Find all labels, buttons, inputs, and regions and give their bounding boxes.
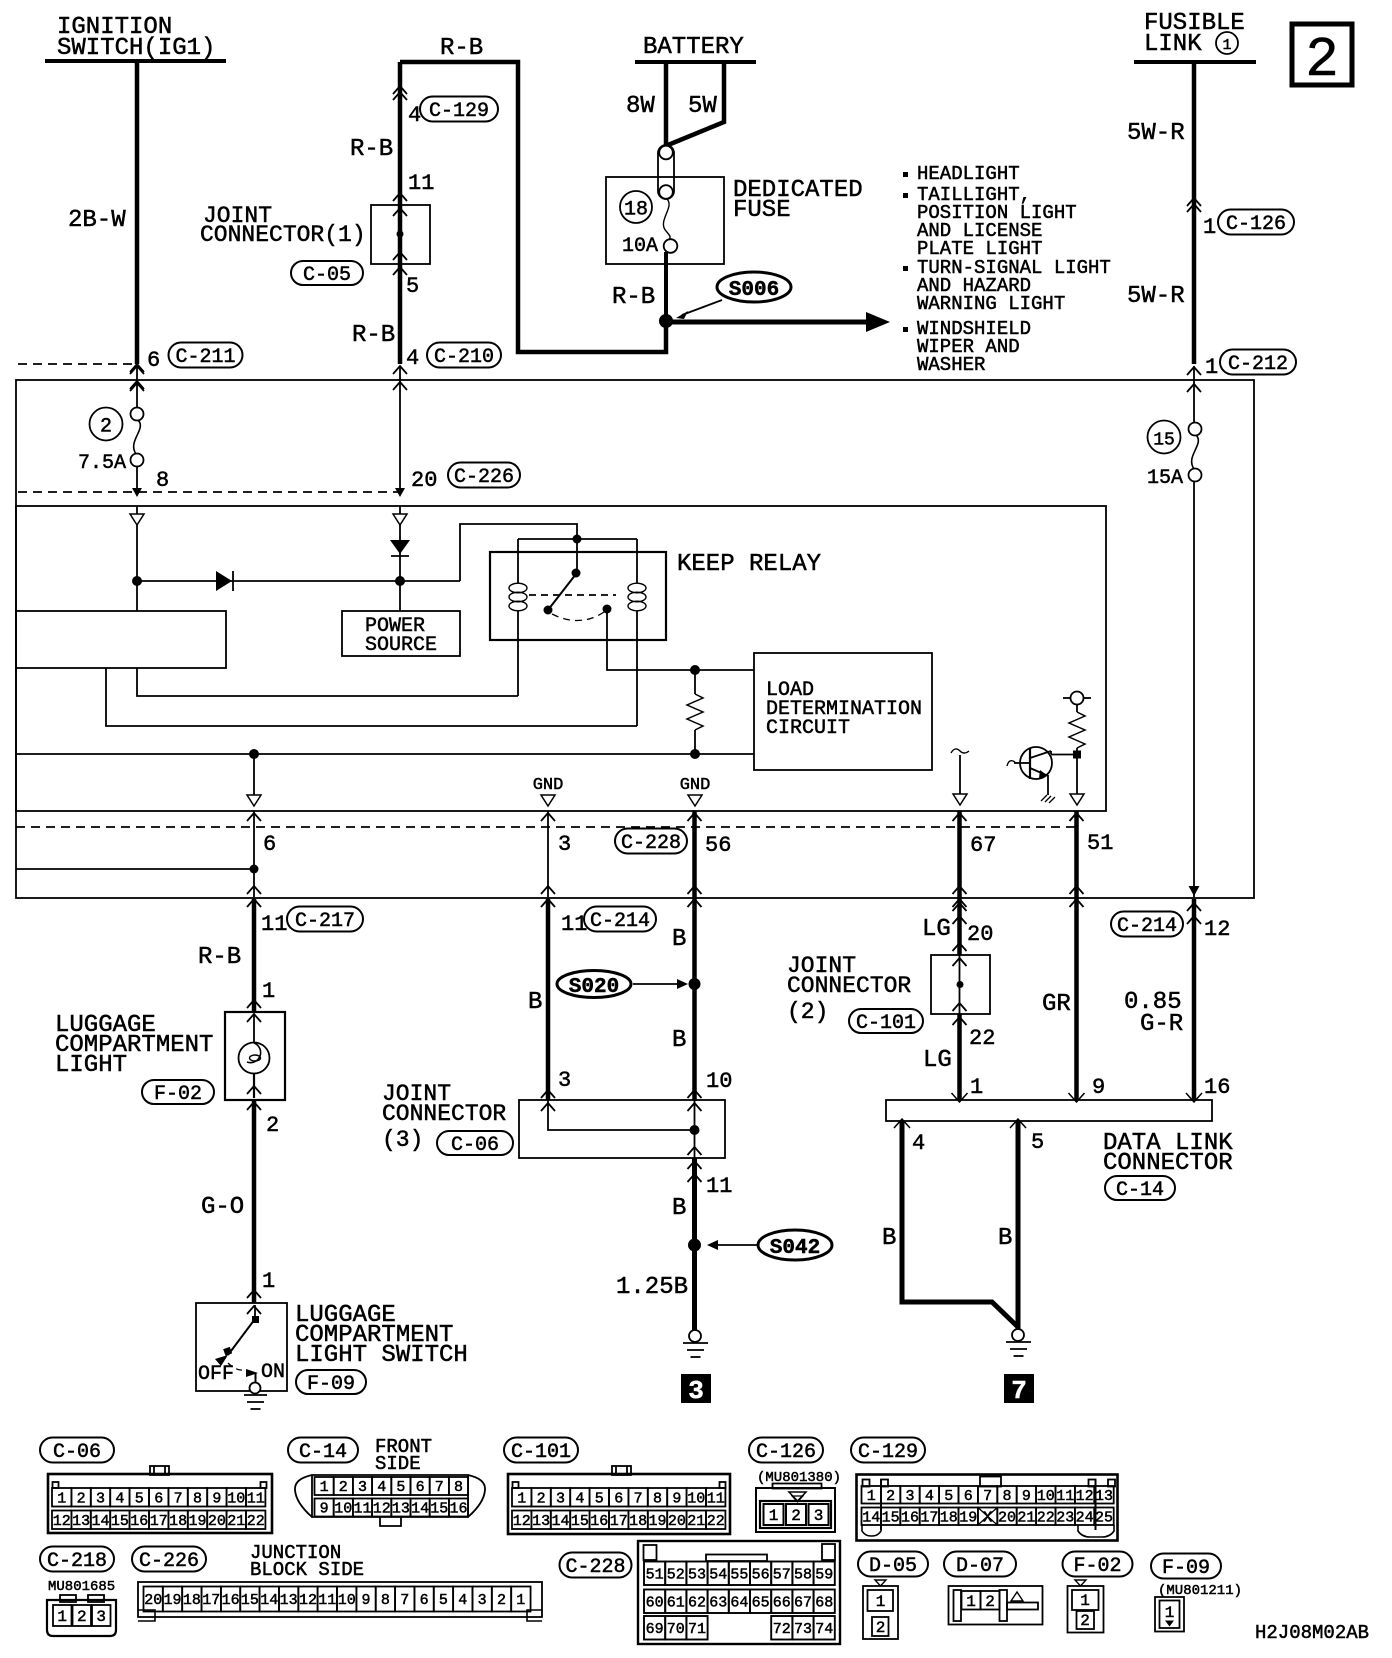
svg-text:5: 5 <box>135 1490 144 1507</box>
svg-text:C-228: C-228 <box>621 832 681 855</box>
svg-text:54: 54 <box>709 1566 727 1583</box>
svg-text:GND: GND <box>533 776 564 795</box>
svg-text:19: 19 <box>163 1592 181 1609</box>
svg-text:14: 14 <box>551 1513 569 1530</box>
svg-text:OFF: OFF <box>198 1363 234 1386</box>
svg-text:ON: ON <box>261 1361 285 1384</box>
load determination circuit block <box>754 653 932 770</box>
svg-text:51: 51 <box>646 1566 664 1583</box>
svg-text:2: 2 <box>339 1479 348 1496</box>
svg-text:16: 16 <box>901 1509 919 1526</box>
node 11 C-217 <box>261 907 363 938</box>
svg-text:51: 51 <box>1087 831 1113 856</box>
svg-text:9: 9 <box>361 1592 370 1609</box>
svg-text:22: 22 <box>1037 1509 1055 1526</box>
svg-text:C-14: C-14 <box>1116 1179 1164 1202</box>
svg-text:3: 3 <box>478 1592 487 1609</box>
svg-text:C-06: C-06 <box>53 1441 101 1464</box>
svg-text:67: 67 <box>794 1594 812 1611</box>
svg-text:14: 14 <box>862 1509 880 1526</box>
svg-text:SWITCH(IG1): SWITCH(IG1) <box>57 35 215 62</box>
svg-text:6: 6 <box>154 1490 163 1507</box>
svg-text:10: 10 <box>338 1592 356 1609</box>
luggage compartment light (F-02) <box>55 1012 285 1110</box>
svg-text:68: 68 <box>815 1594 833 1611</box>
keep relay left coil <box>509 539 527 696</box>
connector C-129 pinout <box>851 1438 1118 1541</box>
svg-text:F-02: F-02 <box>1073 1555 1121 1578</box>
node 4 C-210 <box>393 343 501 391</box>
svg-text:10A: 10A <box>622 235 658 258</box>
svg-text:2B-W: 2B-W <box>68 207 126 234</box>
ground GND mark 1 <box>533 776 564 806</box>
wire B data link pin 4 <box>882 1121 1018 1327</box>
svg-text:7: 7 <box>634 1490 643 1507</box>
wire relay contact to load circuit <box>607 609 754 670</box>
fusible link bus bar <box>1134 60 1256 64</box>
junction block internal wire to pin 6 <box>16 865 259 874</box>
svg-text:18: 18 <box>169 1513 187 1530</box>
svg-text:11: 11 <box>706 1174 732 1199</box>
connector C-126 pinout <box>749 1438 841 1533</box>
svg-text:C-126: C-126 <box>756 1441 816 1464</box>
svg-text:5: 5 <box>1031 1130 1044 1155</box>
svg-text:11: 11 <box>261 912 287 937</box>
battery bus bar <box>635 60 756 64</box>
connector C-14 pinout <box>288 1436 485 1526</box>
connector C-226 pinout <box>132 1542 542 1621</box>
svg-text:17: 17 <box>150 1513 168 1530</box>
svg-text:18: 18 <box>940 1509 958 1526</box>
svg-text:BATTERY: BATTERY <box>643 34 744 61</box>
svg-text:2: 2 <box>985 1593 995 1611</box>
svg-text:20: 20 <box>208 1513 226 1530</box>
svg-text:3: 3 <box>358 1479 367 1496</box>
svg-text:G-O: G-O <box>201 1194 244 1221</box>
svg-text:5: 5 <box>396 1479 405 1496</box>
svg-text:11: 11 <box>353 1501 371 1518</box>
connector F-09 pinout <box>1151 1554 1242 1632</box>
svg-text:15: 15 <box>1153 431 1175 451</box>
svg-text:R-B: R-B <box>612 284 655 311</box>
svg-text:WARNING LIGHT: WARNING LIGHT <box>917 293 1065 315</box>
connector C-101 pinout <box>504 1438 730 1535</box>
svg-text:73: 73 <box>794 1621 812 1638</box>
standby circuit block (left box) <box>16 611 226 668</box>
wire B data link pin 5 <box>998 1121 1018 1329</box>
svg-text:2: 2 <box>1080 1612 1090 1630</box>
wire 15A fuse to C-214 row <box>1189 481 1200 897</box>
svg-text:5: 5 <box>595 1490 604 1507</box>
svg-text:8: 8 <box>1002 1488 1011 1505</box>
wire R-B inside junction block <box>395 366 405 497</box>
svg-text:62: 62 <box>688 1594 706 1611</box>
connector row dashed line C-228 <box>16 826 1078 828</box>
svg-text:56: 56 <box>705 833 731 858</box>
svg-text:10: 10 <box>1037 1488 1055 1505</box>
svg-text:LIGHT SWITCH: LIGHT SWITCH <box>295 1342 468 1369</box>
svg-text:1: 1 <box>1222 37 1231 54</box>
svg-text:8: 8 <box>381 1592 390 1609</box>
svg-text:22: 22 <box>247 1513 265 1530</box>
svg-text:20: 20 <box>144 1592 162 1609</box>
svg-text:C-212: C-212 <box>1228 353 1288 376</box>
svg-text:B: B <box>998 1225 1012 1252</box>
svg-text:17: 17 <box>920 1509 938 1526</box>
svg-text:9: 9 <box>1092 1075 1105 1100</box>
svg-text:1: 1 <box>769 1507 779 1525</box>
svg-text:20: 20 <box>411 468 437 493</box>
svg-text:9: 9 <box>320 1501 329 1518</box>
svg-text:3: 3 <box>688 1376 704 1406</box>
svg-text:2: 2 <box>791 1507 801 1525</box>
svg-text:LINK: LINK <box>1144 31 1202 58</box>
svg-text:57: 57 <box>773 1566 791 1583</box>
svg-text:1: 1 <box>876 1593 886 1611</box>
svg-text:C-226: C-226 <box>454 466 514 489</box>
svg-text:X: X <box>983 1509 992 1526</box>
svg-text:17: 17 <box>202 1592 220 1609</box>
wire pin 67 <box>953 811 997 955</box>
svg-text:23: 23 <box>1056 1509 1074 1526</box>
svg-text:60: 60 <box>646 1594 664 1611</box>
svg-text:2: 2 <box>266 1113 279 1138</box>
svg-text:8W: 8W <box>626 93 655 120</box>
svg-text:53: 53 <box>688 1566 706 1583</box>
svg-text:6: 6 <box>614 1490 623 1507</box>
wire fuse2 into unit <box>130 506 144 611</box>
svg-text:C-05: C-05 <box>303 264 351 287</box>
svg-text:16: 16 <box>1204 1075 1230 1100</box>
svg-text:12: 12 <box>1076 1488 1094 1505</box>
svg-text:12: 12 <box>299 1592 317 1609</box>
svg-text:18: 18 <box>629 1513 647 1530</box>
svg-text:12: 12 <box>1204 917 1230 942</box>
junction node S006 dot <box>659 314 673 328</box>
node 11 C-214 <box>561 907 656 938</box>
ground GND mark 2 <box>680 776 711 806</box>
svg-text:71: 71 <box>688 1621 706 1638</box>
svg-text:52: 52 <box>667 1566 685 1583</box>
svg-text:7: 7 <box>1011 1376 1027 1406</box>
svg-text:19: 19 <box>648 1513 666 1530</box>
svg-text:7.5A: 7.5A <box>78 452 126 475</box>
svg-text:5: 5 <box>406 274 419 299</box>
connector C-06 pinout <box>40 1438 272 1534</box>
connector C-218 pinout <box>40 1547 116 1637</box>
svg-text:69: 69 <box>646 1621 664 1638</box>
svg-text:3: 3 <box>558 1068 571 1093</box>
svg-text:6: 6 <box>263 832 276 857</box>
svg-text:19: 19 <box>188 1513 206 1530</box>
svg-text:FUSE: FUSE <box>733 197 791 224</box>
svg-text:SIDE: SIDE <box>375 1453 421 1475</box>
svg-text:CONNECTOR: CONNECTOR <box>1103 1150 1233 1177</box>
svg-text:GND: GND <box>680 776 711 795</box>
pull-up resistor R2 <box>1051 692 1091 806</box>
svg-text:11: 11 <box>1056 1488 1074 1505</box>
svg-text:GR: GR <box>1042 991 1071 1018</box>
diode D2 horizontal backup feed <box>137 571 460 591</box>
svg-text:4: 4 <box>925 1488 934 1505</box>
svg-text:15: 15 <box>882 1509 900 1526</box>
svg-text:5: 5 <box>944 1488 953 1505</box>
wire 0.85 G-R <box>1124 899 1230 1100</box>
arrow to windshield wiper feed <box>672 312 890 332</box>
wire left box to right coil <box>106 668 637 726</box>
svg-text:CIRCUIT: CIRCUIT <box>766 717 850 740</box>
svg-text:CONNECTOR(1): CONNECTOR(1) <box>200 222 366 248</box>
connector row dashed line C-226 <box>18 463 520 494</box>
svg-text:19: 19 <box>959 1509 977 1526</box>
svg-text:16: 16 <box>590 1513 608 1530</box>
svg-text:BLOCK SIDE: BLOCK SIDE <box>250 1559 364 1581</box>
svg-text:S020: S020 <box>569 976 619 999</box>
keep relay right coil <box>628 539 646 726</box>
svg-text:1: 1 <box>970 1075 983 1100</box>
svg-text:C-129: C-129 <box>858 1441 918 1464</box>
svg-text:C-217: C-217 <box>295 910 355 933</box>
ETACS unit inner box <box>16 506 1106 811</box>
svg-text:LG: LG <box>923 1047 952 1074</box>
svg-text:11: 11 <box>707 1490 725 1507</box>
svg-text:R-B: R-B <box>350 136 393 163</box>
svg-text:5: 5 <box>439 1592 448 1609</box>
svg-text:22: 22 <box>969 1026 995 1051</box>
svg-text:10: 10 <box>687 1490 705 1507</box>
svg-text:1: 1 <box>1080 1592 1090 1610</box>
diode D1 on power source feed <box>390 506 410 611</box>
svg-text:3: 3 <box>556 1490 565 1507</box>
luggage compartment light switch (F-09) <box>196 1302 468 1409</box>
svg-text:C-214: C-214 <box>590 910 650 933</box>
splice S006 <box>676 272 791 319</box>
svg-text:63: 63 <box>709 1594 727 1611</box>
junction dot A <box>132 576 142 586</box>
wire B to joint connector 3 <box>672 977 732 1111</box>
connector D-07 pinout <box>944 1552 1043 1625</box>
svg-text:C-14: C-14 <box>299 1441 347 1464</box>
svg-text:7: 7 <box>435 1479 444 1496</box>
resistor R1 <box>687 665 703 759</box>
svg-text:1: 1 <box>1165 1604 1175 1622</box>
svg-text:(3): (3) <box>382 1127 423 1153</box>
connector F-02 pinout <box>1063 1552 1133 1633</box>
svg-text:B: B <box>672 1027 686 1054</box>
svg-text:21: 21 <box>227 1513 245 1530</box>
svg-text:3: 3 <box>96 1490 105 1507</box>
keep relay contact arm <box>529 569 616 621</box>
svg-text:11: 11 <box>247 1490 265 1507</box>
wire pin 3 GND to C-214 <box>541 811 571 907</box>
svg-text:1: 1 <box>1203 215 1216 240</box>
svg-text:C-218: C-218 <box>47 1550 107 1573</box>
svg-text:15: 15 <box>571 1513 589 1530</box>
svg-text:1: 1 <box>517 1490 526 1507</box>
svg-text:18: 18 <box>183 1592 201 1609</box>
svg-text:9: 9 <box>1022 1488 1031 1505</box>
svg-text:5W: 5W <box>688 93 717 120</box>
wire 67 hook inside unit <box>951 749 969 805</box>
data link connector C-14 <box>886 1100 1233 1202</box>
svg-text:2: 2 <box>537 1490 546 1507</box>
svg-text:C-129: C-129 <box>429 100 489 123</box>
svg-text:9: 9 <box>212 1490 221 1507</box>
svg-text:22: 22 <box>707 1513 725 1530</box>
joint connector (1) C-05 <box>200 193 430 349</box>
svg-text:1: 1 <box>516 1592 525 1609</box>
ground stub node 6 <box>247 754 261 806</box>
ignition switch (IG1) label <box>57 14 215 62</box>
svg-text:F-09: F-09 <box>1162 1557 1210 1580</box>
wire pin 6 to C-217 <box>247 811 276 907</box>
svg-text:15: 15 <box>111 1513 129 1530</box>
drawing number <box>1255 1622 1369 1644</box>
page tag box 2 <box>1292 24 1352 92</box>
svg-text:1.25B: 1.25B <box>616 1274 688 1301</box>
power source block <box>342 611 460 657</box>
svg-text:2: 2 <box>1305 28 1339 92</box>
svg-text:2: 2 <box>100 416 112 439</box>
svg-text:D-07: D-07 <box>956 1555 1004 1578</box>
svg-text:4: 4 <box>377 1479 386 1496</box>
svg-text:C-210: C-210 <box>434 346 494 369</box>
splice S042 <box>688 1230 832 1260</box>
svg-text:11: 11 <box>318 1592 336 1609</box>
fusible link 1 label <box>1144 10 1245 58</box>
svg-text:17: 17 <box>610 1513 628 1530</box>
svg-text:1: 1 <box>262 1269 275 1294</box>
svg-text:G-R: G-R <box>1140 1011 1183 1038</box>
svg-text:H2J08M02AB: H2J08M02AB <box>1255 1622 1369 1644</box>
keep relay box <box>490 551 821 640</box>
svg-text:13: 13 <box>532 1513 550 1530</box>
connector C-228 label <box>615 829 687 855</box>
load list bullets <box>903 163 1111 376</box>
wire 3 B to joint connector 3 <box>541 899 571 1111</box>
svg-text:CONNECTOR: CONNECTOR <box>382 1101 506 1127</box>
svg-text:3: 3 <box>814 1507 824 1525</box>
svg-text:21: 21 <box>687 1513 705 1530</box>
svg-text:5W-R: 5W-R <box>1127 120 1185 147</box>
svg-text:WASHER: WASHER <box>917 354 985 376</box>
svg-text:F-02: F-02 <box>154 1083 202 1106</box>
wire 8W <box>626 64 666 146</box>
svg-text:1: 1 <box>57 1490 66 1507</box>
svg-text:B: B <box>672 926 686 953</box>
svg-text:3: 3 <box>905 1488 914 1505</box>
svg-text:7: 7 <box>983 1488 992 1505</box>
svg-text:55: 55 <box>730 1566 748 1583</box>
keep relay feed wiring <box>460 524 637 581</box>
svg-text:8: 8 <box>653 1490 662 1507</box>
svg-text:14: 14 <box>91 1513 109 1530</box>
svg-text:B: B <box>882 1225 896 1252</box>
svg-text:6: 6 <box>416 1479 425 1496</box>
wire 2B-W from ignition switch <box>68 63 144 389</box>
battery label <box>643 34 744 61</box>
node 12 C-214 right <box>1111 903 1230 942</box>
svg-text:66: 66 <box>773 1594 791 1611</box>
svg-text:5W-R: 5W-R <box>1127 283 1185 310</box>
svg-text:14: 14 <box>260 1592 278 1609</box>
ground point 7 <box>1004 1329 1034 1406</box>
svg-text:12: 12 <box>373 1501 391 1518</box>
svg-text:C-226: C-226 <box>139 1550 199 1573</box>
svg-text:13: 13 <box>1095 1488 1113 1505</box>
wire pin 56 B <box>672 811 731 977</box>
svg-text:4: 4 <box>406 346 419 371</box>
svg-text:7: 7 <box>400 1592 409 1609</box>
wire R-B connector stack <box>350 62 498 364</box>
svg-text:2: 2 <box>77 1490 86 1507</box>
svg-text:SOURCE: SOURCE <box>365 634 437 657</box>
svg-text:8: 8 <box>193 1490 202 1507</box>
wire 5W-R fusible link <box>1127 64 1296 380</box>
svg-text:6: 6 <box>420 1592 429 1609</box>
svg-text:C-228: C-228 <box>565 1556 625 1579</box>
svg-text:13: 13 <box>392 1501 410 1518</box>
svg-text:9: 9 <box>672 1490 681 1507</box>
svg-text:KEEP RELAY: KEEP RELAY <box>677 551 821 578</box>
svg-text:C-101: C-101 <box>511 1441 571 1464</box>
svg-text:10: 10 <box>227 1490 245 1507</box>
svg-text:65: 65 <box>752 1594 770 1611</box>
connector row dashed line C-211 <box>18 363 134 365</box>
svg-text:58: 58 <box>794 1566 812 1583</box>
svg-text:1: 1 <box>867 1488 876 1505</box>
svg-text:72: 72 <box>773 1621 791 1638</box>
svg-text:F-09: F-09 <box>307 1373 355 1396</box>
svg-text:3: 3 <box>558 832 571 857</box>
wire G-O to switch <box>201 1100 279 1314</box>
joint connector (3) C-06 <box>382 1081 725 1158</box>
svg-text:C-211: C-211 <box>175 346 235 369</box>
svg-text:59: 59 <box>815 1566 833 1583</box>
svg-text:74: 74 <box>815 1621 833 1638</box>
svg-text:21: 21 <box>1017 1509 1035 1526</box>
svg-text:1: 1 <box>1205 355 1218 380</box>
svg-text:2: 2 <box>497 1592 506 1609</box>
svg-text:LG: LG <box>922 916 951 943</box>
svg-text:6: 6 <box>964 1488 973 1505</box>
wire pin 51 <box>1042 811 1113 1100</box>
svg-text:2: 2 <box>77 1608 87 1626</box>
svg-text:10: 10 <box>334 1501 352 1518</box>
svg-text:1: 1 <box>966 1593 976 1611</box>
node 6 C-211 <box>147 343 243 374</box>
svg-text:14: 14 <box>411 1501 429 1518</box>
joint connector (2) C-101 <box>787 903 995 1100</box>
svg-text:1: 1 <box>262 979 275 1004</box>
splice S020 <box>528 971 701 1017</box>
svg-text:B: B <box>528 989 542 1016</box>
svg-text:25: 25 <box>1095 1509 1113 1526</box>
svg-text:C-06: C-06 <box>451 1134 499 1157</box>
data link pin forks <box>894 1093 1202 1128</box>
svg-text:56: 56 <box>752 1566 770 1583</box>
svg-text:16: 16 <box>130 1513 148 1530</box>
svg-text:2: 2 <box>876 1619 886 1637</box>
svg-text:20: 20 <box>668 1513 686 1530</box>
fuse 2 (7.5A) <box>78 366 169 497</box>
svg-text:7: 7 <box>174 1490 183 1507</box>
svg-text:12: 12 <box>513 1513 531 1530</box>
junction block outer box <box>16 380 1254 898</box>
svg-text:61: 61 <box>667 1594 685 1611</box>
svg-text:70: 70 <box>667 1621 685 1638</box>
svg-text:2: 2 <box>886 1488 895 1505</box>
